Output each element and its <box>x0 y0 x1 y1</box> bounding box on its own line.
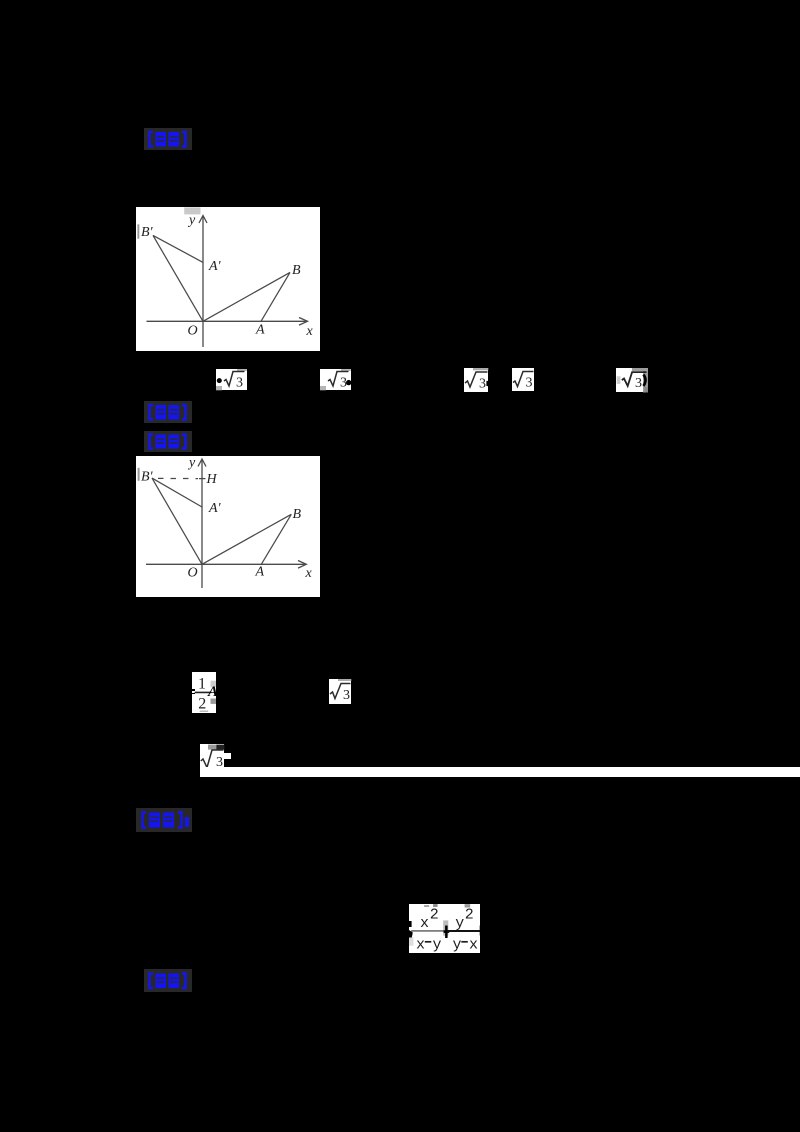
segment O to B <box>202 514 291 564</box>
diagram panel 2 <box>136 456 320 597</box>
x-axis <box>146 563 305 565</box>
svg-text:O: O <box>188 565 198 580</box>
svg-text:1: 1 <box>198 675 206 692</box>
svg-text:A': A' <box>208 501 222 516</box>
svg-text:A': A' <box>208 259 222 274</box>
sqrt3 box S1 <box>216 369 247 390</box>
white answer underline bar <box>200 767 800 777</box>
svg-text:3: 3 <box>525 376 532 391</box>
equals sign left of fraction <box>189 689 195 691</box>
svg-text:y: y <box>452 936 461 953</box>
left edge black blob upper <box>409 921 412 927</box>
label L2 blue highlight <box>144 401 192 424</box>
right fraction bar <box>447 930 480 932</box>
segment A to B <box>261 514 291 564</box>
gray tick left edge <box>137 224 139 238</box>
sqrt3 box S5 <box>616 368 648 393</box>
svg-text:O: O <box>187 324 197 339</box>
svg-text:x: x <box>469 936 478 953</box>
svg-text:y: y <box>455 915 464 932</box>
svg-text:A: A <box>255 564 265 579</box>
left fraction bar <box>411 929 446 931</box>
diagram panel 1 <box>136 207 320 351</box>
svg-text:B: B <box>293 507 302 522</box>
svg-text:y: y <box>187 213 196 228</box>
y-axis <box>201 460 203 588</box>
right edge black blob <box>478 925 481 935</box>
svg-text:3: 3 <box>635 376 642 391</box>
dashed line B' to H <box>158 477 198 479</box>
svg-text:B: B <box>292 263 301 278</box>
sqrt3 box S7 with blank underline <box>200 744 224 768</box>
segment B' to A' <box>152 478 202 507</box>
gray tick left edge <box>138 467 140 480</box>
label L3 blue highlight <box>144 431 192 452</box>
bold comma/paren mark <box>643 374 645 386</box>
y-axis <box>202 217 204 347</box>
svg-text:x: x <box>305 324 313 339</box>
gray smudge artifact <box>184 207 200 214</box>
math expression x^2/(x-y)+y^2/(y-x) <box>409 904 481 954</box>
white chunk right of sqrt3 S7 <box>224 753 231 759</box>
tick at H <box>199 477 206 479</box>
label L4 blue highlight <box>136 808 192 832</box>
sqrt3 box S4 <box>512 368 534 390</box>
svg-text:y: y <box>432 936 441 953</box>
sqrt3 box S3 <box>464 368 488 392</box>
segment O to B <box>203 272 290 321</box>
segment A to B <box>261 272 290 321</box>
svg-text:3: 3 <box>343 688 350 703</box>
label L5 blue highlight <box>144 969 192 993</box>
svg-text:B': B' <box>141 225 154 240</box>
x-axis <box>146 320 306 322</box>
svg-text:2: 2 <box>464 906 473 923</box>
svg-text:2: 2 <box>429 906 438 923</box>
sqrt3 box S6 <box>329 679 351 704</box>
label L1 blue 【考点】 highlight <box>144 128 192 150</box>
svg-text:x: x <box>305 566 313 581</box>
svg-text:B': B' <box>141 469 154 484</box>
svg-text:A: A <box>255 323 265 338</box>
left edge black blob lower <box>409 930 413 938</box>
svg-text:3: 3 <box>236 375 243 390</box>
italic A glyph overlapping fraction box <box>208 684 218 701</box>
svg-text:x: x <box>420 915 429 932</box>
svg-text:3: 3 <box>340 375 347 390</box>
svg-text:x: x <box>416 936 425 953</box>
fraction 1/2 box <box>192 672 216 713</box>
svg-text:y: y <box>187 456 196 471</box>
svg-text:3: 3 <box>479 376 486 391</box>
sqrt3 box S2 <box>320 369 351 390</box>
svg-text:H: H <box>206 472 218 487</box>
plus sign <box>445 925 448 938</box>
svg-text:2: 2 <box>198 695 206 712</box>
segment B' to A' <box>153 235 203 262</box>
segment B' to O <box>153 235 203 321</box>
segment B' to O <box>152 478 202 564</box>
